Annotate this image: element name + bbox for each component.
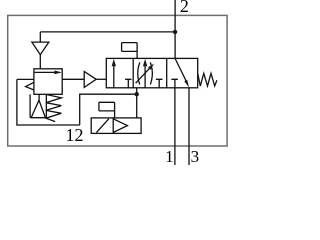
svg-text:12: 12: [66, 125, 84, 145]
wire port 3: [188, 88, 190, 165]
valve return spring: [198, 73, 217, 86]
regulator pilot stub: [17, 78, 34, 80]
solenoid amplifier triangle: [113, 119, 127, 133]
regulator flow arrow: [35, 71, 56, 73]
wire valve port to solenoid: [136, 88, 138, 118]
wire pilot branch horizontal: [40, 31, 175, 33]
wire port 1: [174, 88, 176, 165]
svg-text:3: 3: [191, 147, 200, 165]
solenoid pilot box: [91, 118, 141, 133]
wire vent drop: [39, 32, 41, 42]
node junction dot top: [173, 30, 177, 34]
left box flow arrow: [113, 66, 115, 88]
vent triangle: [32, 42, 49, 55]
node junction dot bottom: [135, 92, 139, 96]
wire vent to regulator: [39, 55, 41, 69]
amplifier triangle: [84, 71, 96, 87]
regulator spring: [46, 95, 62, 122]
regulator R body: [34, 69, 62, 95]
wire regulator out to amplifier: [62, 78, 84, 80]
wire port 2 vertical: [174, 0, 176, 58]
throttle adjust arrow: [136, 68, 150, 83]
middle box throttle flow arrow: [144, 66, 146, 88]
wire pilot feedback loop: [17, 79, 137, 125]
svg-text:2: 2: [180, 0, 189, 16]
right box blocked port T: [171, 79, 178, 88]
right box exhaust diagonal: [175, 59, 186, 82]
wire amplifier to valve: [96, 78, 106, 80]
regulator relief arrow: [26, 82, 35, 90]
valve V1 body: [106, 58, 197, 87]
throttle arcs: [138, 62, 153, 84]
middle box blocked port T: [156, 79, 163, 88]
valve divider left: [132, 58, 134, 87]
svg-text:1: 1: [165, 147, 174, 165]
enclosure box: [8, 15, 227, 146]
solenoid pilot bracket: [99, 102, 115, 118]
solenoid coil diagonal: [96, 119, 108, 133]
regulator relief box: [30, 94, 46, 117]
relief triangle: [38, 94, 40, 100]
valve divider right: [166, 58, 168, 87]
stroke limiter bracket above valve: [122, 43, 138, 59]
left box blocked port T: [125, 79, 131, 88]
